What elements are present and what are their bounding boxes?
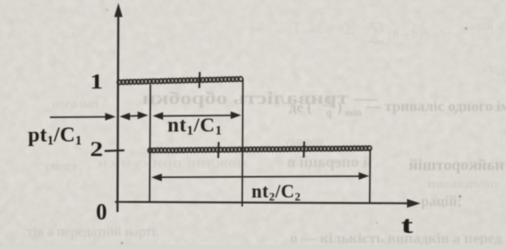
level-1 waveform segment (chain line)	[120, 79, 241, 82]
svg-text:помилкови: помилкови	[428, 177, 498, 192]
svg-text:t: t	[401, 213, 413, 239]
svg-text:1: 1	[90, 70, 103, 94]
svg-text:ѕій: ѕій	[478, 18, 494, 33]
svg-text:0: 0	[96, 200, 107, 225]
svg-text:смист: смист	[45, 158, 78, 173]
svg-text:тів а передатній нарті.: тів а передатній нарті.	[27, 225, 159, 240]
tick on level-1 segment	[198, 72, 201, 88]
tick on level-2 segment (right)	[303, 142, 306, 158]
vertical boundary at end of level-1 (x=242.5)	[241, 79, 244, 207]
svg-text:нога імп: нога імп	[52, 96, 99, 111]
svg-text:q: q	[326, 108, 332, 119]
x-axis	[115, 199, 421, 208]
svg-text:2: 2	[90, 137, 103, 161]
tick on level-2 segment (left)	[217, 142, 220, 158]
dimension double-arrow nt2/C2	[151, 172, 369, 181]
leader line from pt1/C1 label	[50, 113, 116, 121]
y-axis	[114, 3, 122, 212]
dust speckles	[465, 27, 467, 29]
svg-text:— триваліс одного імп: — триваліс одного імп	[365, 99, 506, 115]
svg-text:³/ₓ: ³/ₓ	[489, 63, 501, 78]
svg-text:(n – b)S −¹: (n – b)S −¹	[388, 26, 444, 41]
svg-text:о — кількість випадків а перед: о — кількість випадків а перед	[290, 231, 502, 245]
svg-text:pt1/C1: pt1/C1	[28, 123, 82, 148]
svg-text:nt1/C1: nt1/C1	[168, 115, 223, 138]
tick at level 2	[105, 149, 125, 152]
svg-text:—¹: —¹	[59, 29, 76, 43]
svg-text:— тривалість обробки: — тривалість обробки	[142, 88, 378, 108]
svg-text:nt2/C2: nt2/C2	[252, 183, 301, 204]
dimension double-arrow nt1/C1	[153, 111, 242, 119]
svg-text:й операції в: й операції в	[286, 154, 372, 171]
svg-text:рацій;: рацій;	[421, 194, 462, 210]
svg-text:найкоротшій: найкоротшій	[409, 157, 504, 174]
level-2 waveform segment (chain line)	[150, 148, 369, 150]
svg-text:можлив при сумісн: можлив при сумісн	[98, 156, 248, 171]
dimension double-arrow for pt1/C1 interval	[120, 112, 149, 121]
svg-text:q=1: q=1	[362, 36, 379, 48]
svg-text:T₀ₒₚₓ = a∑: T₀ₒₚₓ = a∑	[292, 19, 355, 36]
vertical boundary at start of level-2 (x=150)	[149, 85, 152, 202]
vertical boundary at end of level-2 (x=370)	[369, 149, 372, 203]
svg-text:min: min	[345, 108, 362, 119]
